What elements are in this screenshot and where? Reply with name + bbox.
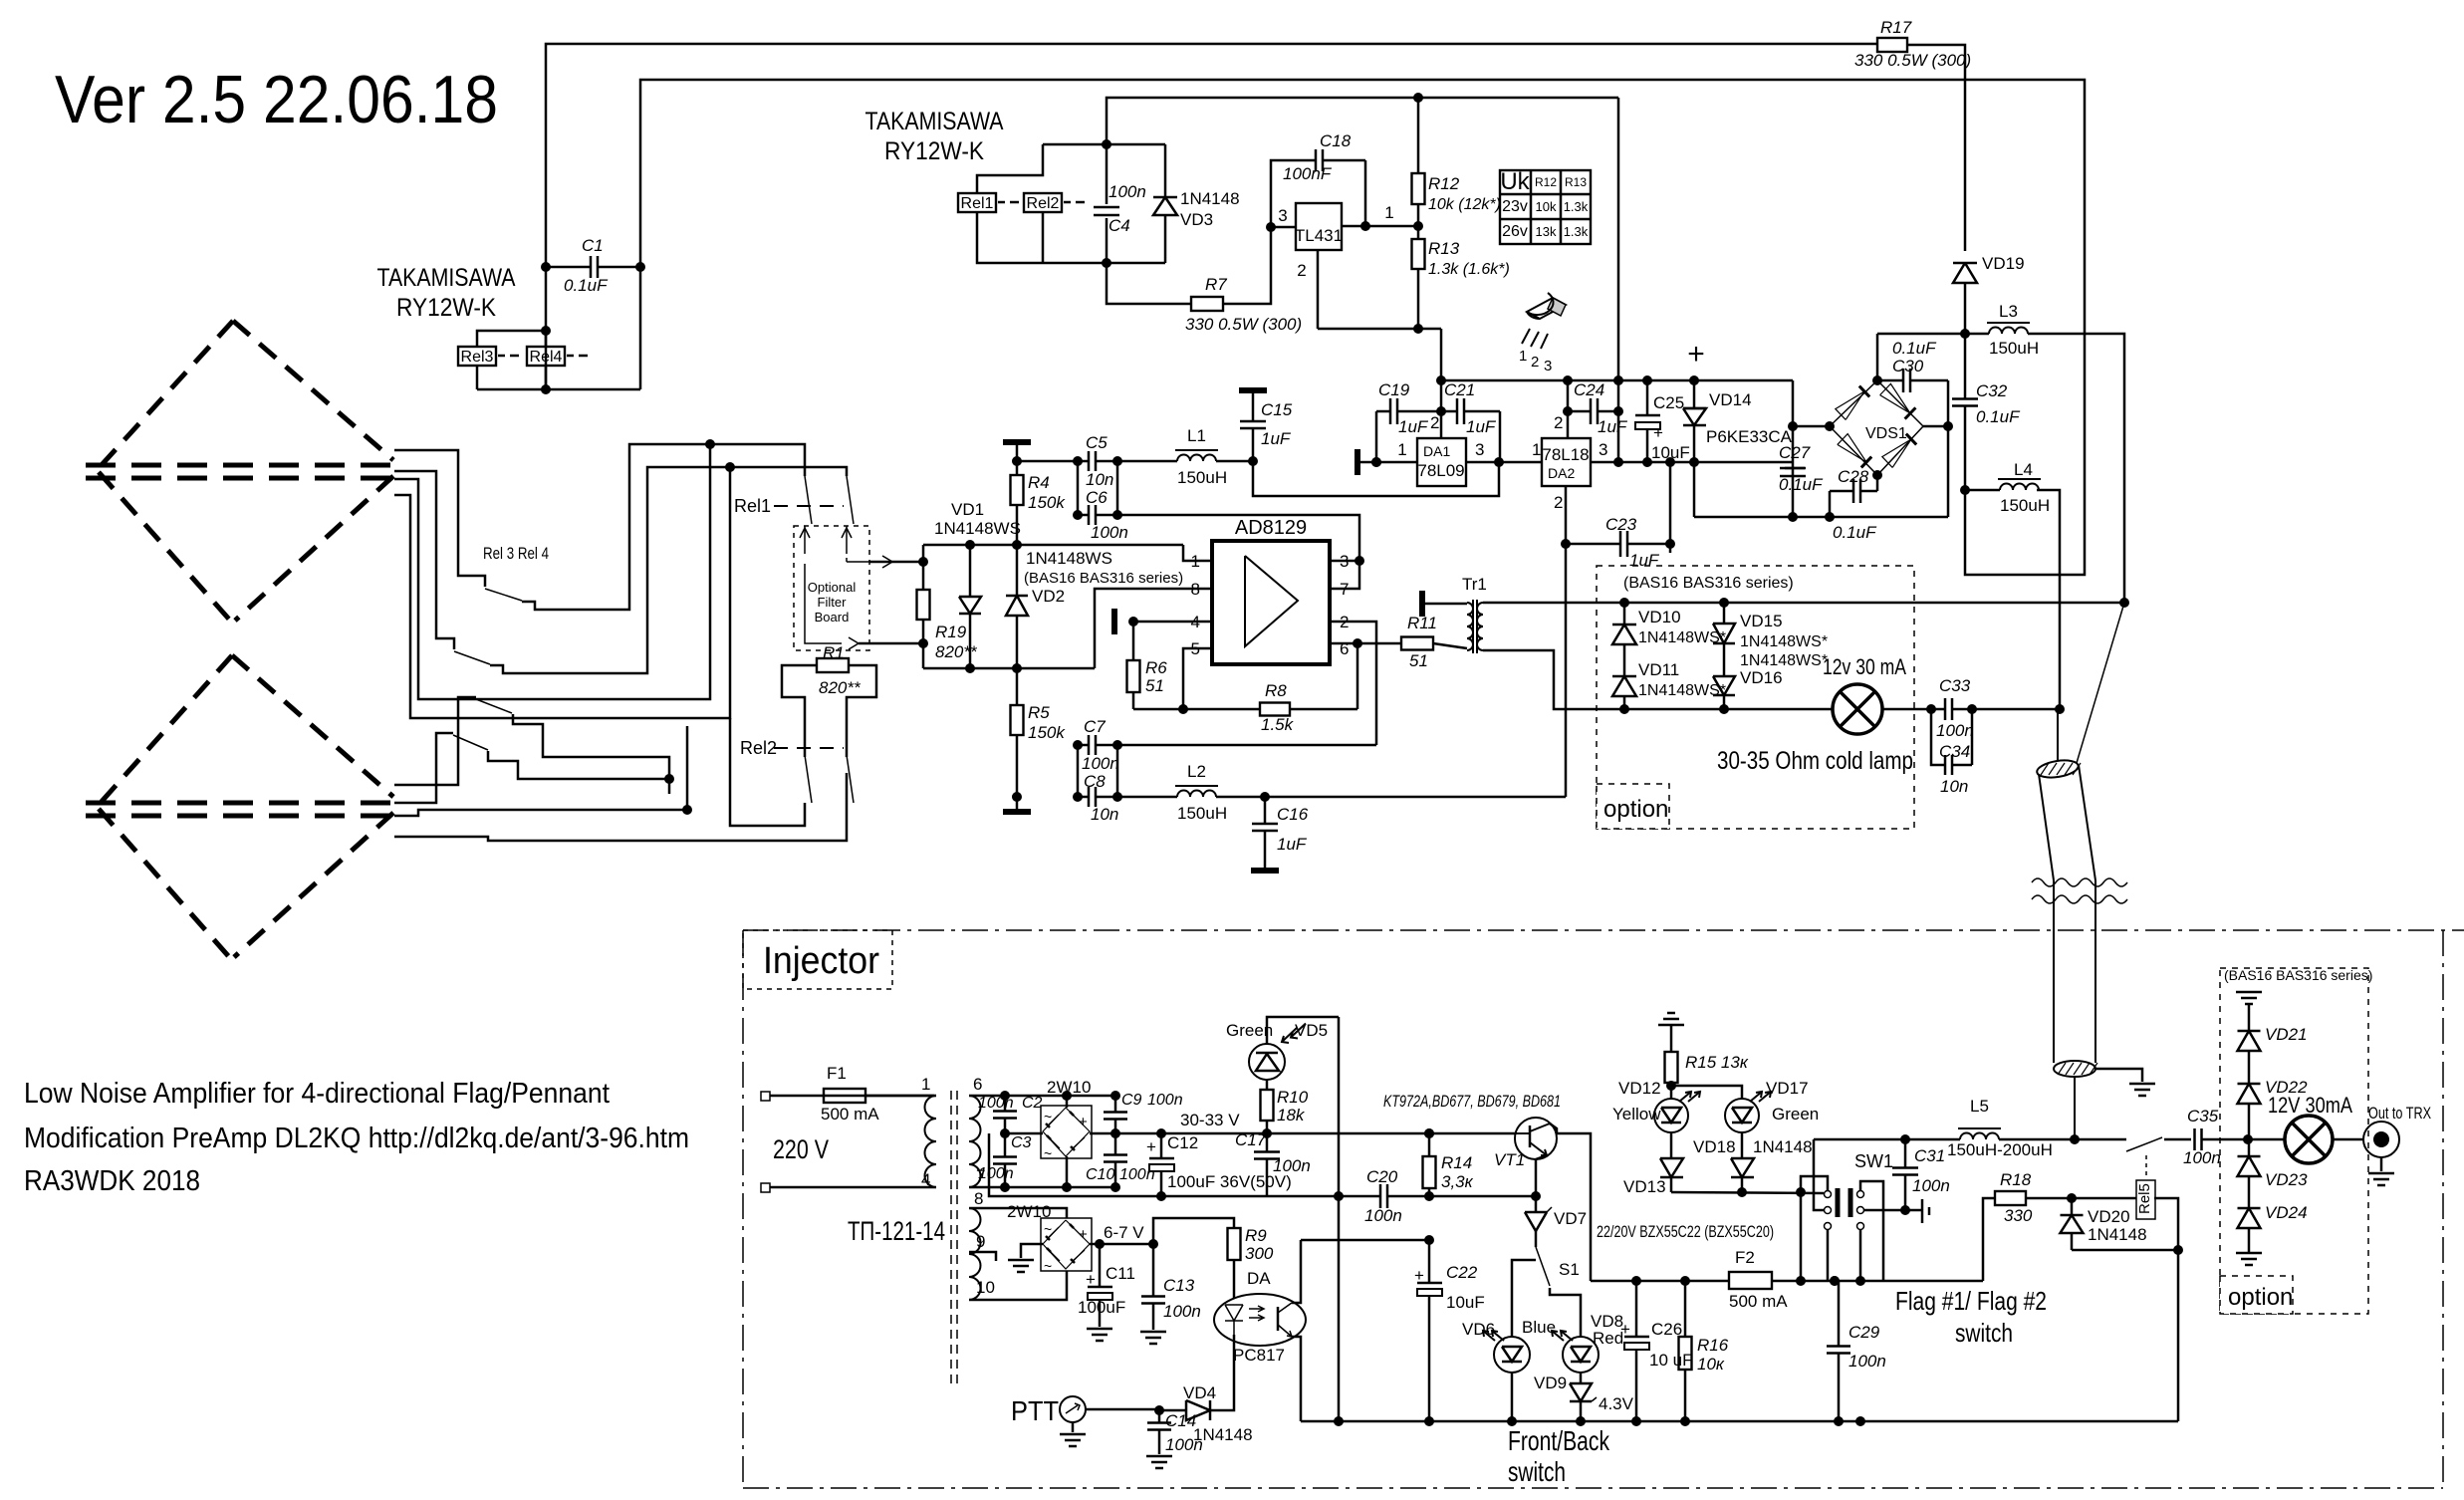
- svg-text:C33: C33: [1939, 676, 1971, 695]
- svg-text:10 uF: 10 uF: [1649, 1351, 1692, 1370]
- wire antenna upper feed 4: [394, 467, 730, 718]
- diode VD21: [2248, 1004, 2251, 1031]
- wire VD5 top: [1267, 1017, 1339, 1044]
- svg-text:0.1uF: 0.1uF: [1779, 475, 1824, 494]
- svg-text:C15: C15: [1261, 400, 1293, 419]
- svg-text:VT1: VT1: [1494, 1150, 1525, 1169]
- wire C6 rail to pin3: [1117, 515, 1359, 561]
- svg-text:+: +: [1653, 423, 1663, 442]
- arrow filter in 1: [804, 526, 806, 554]
- svg-text:6: 6: [973, 1075, 982, 1094]
- svg-text:Tr1: Tr1: [1462, 575, 1487, 594]
- capacitor C7: [1078, 744, 1089, 747]
- svg-text:1: 1: [1191, 552, 1200, 571]
- svg-text:2: 2: [1297, 261, 1306, 280]
- svg-text:100n: 100n: [1936, 721, 1974, 740]
- svg-text:VD2: VD2: [1032, 587, 1065, 606]
- capacitor C16: [1264, 797, 1267, 824]
- resistor R12: [1417, 98, 1420, 173]
- wire PC817 LED cathode: [1210, 1335, 1234, 1410]
- svg-text:12V 30mA: 12V 30mA: [2268, 1093, 2352, 1118]
- svg-text:1N4148WS*: 1N4148WS*: [1740, 633, 1828, 650]
- svg-text:1N4148WS*: 1N4148WS*: [1638, 629, 1726, 646]
- svg-text:C27: C27: [1779, 443, 1811, 462]
- wire bridge left: [1793, 425, 1830, 428]
- wire Tr1 left top: [1422, 603, 1467, 606]
- wire bridge1 bottom: [1066, 1156, 1069, 1187]
- ground bottom option2: [2236, 1252, 2262, 1255]
- capacitor C18: [1271, 160, 1316, 227]
- svg-text:VD1: VD1: [951, 500, 984, 519]
- wire F2 right: [1772, 1280, 1983, 1283]
- svg-text:100n: 100n: [1091, 523, 1128, 542]
- diode VD10: [1623, 603, 1626, 625]
- wire TL431 pin3: [1271, 226, 1296, 229]
- svg-text:C21: C21: [1444, 380, 1475, 399]
- wire sec B mid tap: [969, 1252, 996, 1261]
- svg-text:Out to TRX: Out to TRX: [2368, 1104, 2431, 1123]
- diode VD1: [969, 545, 972, 597]
- wire pin3 top: [1330, 560, 1359, 563]
- wire switch to C35: [2164, 1138, 2191, 1141]
- svg-text:L4: L4: [2014, 460, 2033, 479]
- svg-text:VDS1: VDS1: [1865, 425, 1907, 442]
- capacitor C14: [1158, 1410, 1161, 1423]
- svg-text:300: 300: [1245, 1244, 1274, 1263]
- wire DA2 pin2 bottom: [1565, 486, 1568, 797]
- capacitor C29: [1838, 1281, 1841, 1346]
- wire 9V rail to DA1: [1253, 461, 1499, 496]
- resistor R11: [1401, 637, 1433, 650]
- wire Rel1 Rel2 top loop: [977, 144, 1043, 193]
- svg-text:23v: 23v: [1502, 198, 1528, 215]
- diode VD24: [2238, 1207, 2261, 1210]
- svg-text:VD10: VD10: [1638, 608, 1681, 626]
- svg-text:switch: switch: [1508, 1456, 1566, 1487]
- svg-text:R12: R12: [1535, 175, 1557, 189]
- wire bridge1 out right: [1090, 1132, 1115, 1135]
- svg-text:220 V: 220 V: [773, 1134, 829, 1164]
- optional filter board box: [794, 526, 869, 650]
- relay Rel2: [1024, 193, 1062, 212]
- svg-text:RY12W-K: RY12W-K: [884, 137, 984, 165]
- svg-text:C35: C35: [2187, 1107, 2219, 1125]
- wire R8 to pin6 node: [1356, 643, 1359, 709]
- svg-text:RY12W-K: RY12W-K: [396, 294, 496, 322]
- wire bridge2 out: [1090, 1243, 1153, 1246]
- wire antenna lower feed 3: [394, 726, 687, 816]
- svg-text:100n: 100n: [1165, 1435, 1203, 1454]
- resistor R18: [1983, 1198, 1995, 1281]
- svg-text:L3: L3: [1999, 302, 2018, 321]
- capacitor C6: [1078, 514, 1089, 517]
- svg-text:ТП-121-14: ТП-121-14: [848, 1216, 945, 1246]
- svg-text:R9: R9: [1245, 1226, 1267, 1245]
- svg-text:option: option: [1603, 796, 1668, 823]
- capacitor C35: [2193, 1128, 2196, 1150]
- wire to R9: [1153, 1218, 1234, 1244]
- ground connector: [2380, 1157, 2383, 1171]
- capacitor C21: [1441, 410, 1457, 413]
- svg-text:C8: C8: [1084, 772, 1106, 791]
- svg-text:3: 3: [1278, 206, 1287, 225]
- svg-text:(BAS16 BAS316 series): (BAS16 BAS316 series): [1024, 570, 1183, 587]
- svg-text:C13: C13: [1163, 1276, 1195, 1295]
- svg-text:R17: R17: [1880, 18, 1912, 37]
- svg-text:8: 8: [974, 1189, 983, 1208]
- svg-text:78L09: 78L09: [1417, 461, 1464, 480]
- wire Tr1 right bottom: [1483, 650, 1624, 709]
- wire C5 C6 verticals: [1077, 461, 1080, 515]
- wire pin1: [1183, 545, 1212, 561]
- svg-text:3: 3: [1475, 440, 1484, 459]
- wire pin8: [1095, 589, 1212, 668]
- LED VD8 red: [1563, 1337, 1599, 1373]
- svg-text:C16: C16: [1277, 805, 1309, 824]
- diode VD15: [1723, 603, 1726, 624]
- svg-text:30-33 V: 30-33 V: [1180, 1111, 1240, 1129]
- svg-text:Rel1: Rel1: [734, 496, 771, 516]
- svg-text:DA2: DA2: [1548, 465, 1575, 481]
- wire lamp to connector: [2333, 1138, 2363, 1141]
- capacitor C4: [1106, 144, 1109, 204]
- capacitor C33: [1931, 708, 1945, 711]
- svg-text:R18: R18: [2000, 1170, 2032, 1189]
- arrow filter out bottom: [805, 564, 842, 643]
- svg-text:+: +: [1079, 1226, 1088, 1243]
- svg-text:R13: R13: [1565, 175, 1587, 189]
- wire L5 rail left: [1814, 1138, 1960, 1141]
- svg-text:F1: F1: [827, 1064, 847, 1083]
- svg-text:100n: 100n: [978, 1165, 1014, 1182]
- svg-text:VD13: VD13: [1623, 1177, 1666, 1196]
- capacitor C27: [1785, 467, 1805, 470]
- svg-text:C28: C28: [1838, 467, 1869, 486]
- wire 30V rail: [1115, 1132, 1516, 1135]
- wire sec A bottom: [969, 1186, 1115, 1189]
- switch Rel4 contact a: [476, 699, 512, 713]
- wire R15 to VD17: [1671, 1086, 1742, 1100]
- capacitor C1: [546, 266, 591, 269]
- diode VD9 zener: [1570, 1383, 1592, 1401]
- wire VT1 emitter: [1536, 1155, 1547, 1212]
- svg-text:R5: R5: [1028, 703, 1050, 722]
- svg-text:C9: C9: [1121, 1092, 1142, 1109]
- option box dashed: [1597, 566, 1914, 829]
- svg-text:R19: R19: [935, 623, 967, 641]
- resistor R4: [1016, 442, 1019, 475]
- ground bar R5 bottom: [1016, 797, 1019, 810]
- svg-text:TAKAMISAWA: TAKAMISAWA: [377, 264, 516, 292]
- svg-text:100n: 100n: [978, 1095, 1014, 1112]
- wire cable diag: [2077, 603, 2124, 763]
- svg-text:100n: 100n: [1912, 1176, 1950, 1195]
- wire pin5: [1183, 648, 1212, 709]
- svg-text:2: 2: [1430, 413, 1439, 432]
- capacitor C9: [1114, 1096, 1117, 1112]
- svg-text:0.1uF: 0.1uF: [1833, 523, 1877, 542]
- inductor L1: [1177, 455, 1216, 461]
- svg-text:1N4148WS: 1N4148WS: [934, 519, 1021, 538]
- resistor R16: [1684, 1281, 1687, 1337]
- regulator DA1 78L09: [1417, 438, 1466, 486]
- svg-text:C4: C4: [1109, 216, 1130, 235]
- svg-text:10k (12k*): 10k (12k*): [1428, 196, 1501, 213]
- svg-text:1: 1: [1397, 440, 1406, 459]
- wire bridge2 gnd: [1021, 1244, 1043, 1258]
- svg-text:C11: C11: [1106, 1264, 1135, 1283]
- svg-text:1N4148WS*: 1N4148WS*: [1638, 682, 1726, 699]
- wire DA1 pin3: [1466, 461, 1542, 464]
- svg-text:Rel4: Rel4: [530, 349, 563, 366]
- wire R13 plus rail: [1441, 379, 1793, 382]
- wire upper box: [1107, 98, 1618, 144]
- svg-text:100uF: 100uF: [1078, 1298, 1125, 1317]
- wire long vertical from top box: [1617, 98, 1620, 462]
- svg-text:1N4148WS: 1N4148WS: [1026, 549, 1112, 568]
- svg-text:C30: C30: [1892, 357, 1924, 375]
- switch Rel3 contact b: [454, 651, 490, 664]
- wire antenna upper feed 2: [394, 471, 454, 649]
- svg-text:100n: 100n: [1109, 182, 1146, 201]
- svg-text:Low Noise Amplifier for 4-dire: Low Noise Amplifier for 4-directional Fl…: [24, 1078, 610, 1110]
- capacitor C31: [1904, 1139, 1907, 1167]
- svg-text:78L18: 78L18: [1542, 445, 1589, 464]
- svg-text:1uF: 1uF: [1277, 835, 1308, 854]
- capacitor C23: [1566, 543, 1620, 546]
- lamp out 12V 30mA: [2285, 1116, 2333, 1163]
- capacitor C5: [1078, 460, 1089, 463]
- wire R6 to R8: [1133, 708, 1183, 711]
- svg-text:C29: C29: [1848, 1323, 1880, 1342]
- wire DA2 pin2 top: [1567, 380, 1570, 438]
- wire C21 right leg: [1499, 411, 1502, 462]
- lamp 12v 30mA: [1833, 684, 1882, 734]
- wire SW1 left bottom: [1827, 1229, 1830, 1281]
- svg-text:2: 2: [1531, 354, 1539, 371]
- svg-text:VD5: VD5: [1295, 1021, 1328, 1040]
- svg-text:VD18: VD18: [1693, 1137, 1736, 1156]
- wire SW1 hook right: [1860, 1181, 1883, 1281]
- diode VD23: [2248, 1139, 2251, 1156]
- svg-text:+: +: [1687, 338, 1705, 371]
- svg-text:R8: R8: [1265, 681, 1287, 700]
- svg-text:VD3: VD3: [1180, 210, 1213, 229]
- wire S1 contacts: [1512, 1260, 1536, 1338]
- wire SW1 hook left: [1801, 1176, 1828, 1281]
- svg-text:+: +: [1079, 1114, 1088, 1130]
- wire DA2 pin3 row: [1591, 461, 1793, 464]
- svg-text:VD15: VD15: [1740, 612, 1783, 630]
- antenna feedline lower: [86, 801, 393, 806]
- wire C19 left leg: [1375, 411, 1378, 462]
- label Injector: [743, 930, 892, 989]
- svg-text:C31: C31: [1914, 1146, 1945, 1165]
- svg-text:L5: L5: [1970, 1097, 1989, 1116]
- injector dash-dot box: [743, 929, 2464, 931]
- wire R1 loop right: [847, 681, 876, 757]
- svg-text:1: 1: [1532, 440, 1541, 459]
- svg-text:C17: C17: [1235, 1130, 1267, 1149]
- wire rail to L2: [1117, 796, 1177, 799]
- svg-text:4.3V: 4.3V: [1599, 1394, 1634, 1413]
- wire cable shield ground: [2095, 1069, 2142, 1082]
- wire C33 to cable center: [1972, 708, 2060, 711]
- wire antenna lower feed 1: [394, 697, 476, 785]
- svg-text:Board: Board: [815, 610, 850, 625]
- svg-text:C25: C25: [1653, 393, 1684, 412]
- capacitor C13: [1152, 1244, 1155, 1296]
- svg-text:C24: C24: [1574, 380, 1604, 399]
- relay Rel1: [958, 193, 996, 212]
- relay Rel3: [458, 347, 496, 366]
- resistor R7: [1191, 297, 1223, 311]
- wire pin2: [1330, 622, 1376, 745]
- svg-text:R10: R10: [1277, 1088, 1309, 1107]
- svg-text:VD24: VD24: [2265, 1203, 2308, 1222]
- svg-text:22/20V BZX55C22 (BZX55C20): 22/20V BZX55C22 (BZX55C20): [1597, 1222, 1774, 1241]
- transistor TO-92 package drawing: [1527, 298, 1566, 319]
- ground bar Tr1: [1419, 591, 1425, 617]
- svg-text:12v 30 mA: 12v 30 mA: [1823, 654, 1906, 679]
- wire gnd rail injector: [989, 1133, 1339, 1196]
- svg-text:VD6: VD6: [1462, 1320, 1495, 1339]
- svg-text:100n: 100n: [1364, 1206, 1402, 1225]
- wire bridge top to L3: [1876, 334, 1879, 380]
- svg-text:3: 3: [1544, 358, 1552, 375]
- svg-text:+: +: [1414, 1266, 1424, 1285]
- svg-text:150uH-200uH: 150uH-200uH: [1947, 1140, 2053, 1159]
- fuse F1: [770, 1095, 865, 1098]
- wire input top rail: [923, 544, 1183, 547]
- coax cable upper: [2036, 758, 2080, 780]
- svg-text:Ver 2.5 22.06.18: Ver 2.5 22.06.18: [55, 62, 498, 137]
- wire VD20 bottom: [2072, 1249, 2178, 1252]
- wire PC817 emitter: [1292, 1337, 1301, 1421]
- svg-text:VD7: VD7: [1554, 1209, 1587, 1228]
- wire bridge1 AC left: [1005, 1132, 1043, 1135]
- svg-text:1N4148: 1N4148: [1753, 1137, 1813, 1156]
- capacitor C15: [1252, 428, 1255, 461]
- antenna loop 1 (upper diamond): [99, 321, 233, 468]
- diode VD16: [1713, 676, 1735, 695]
- svg-text:+: +: [1086, 1270, 1096, 1289]
- wire filter to R19: [869, 561, 923, 564]
- svg-text:150uH: 150uH: [2000, 496, 2050, 515]
- diode VD3: [1164, 144, 1167, 197]
- diode VD18: [1731, 1158, 1754, 1177]
- wire C23 right leg: [1669, 462, 1672, 544]
- wire L4 to cable: [2037, 490, 2060, 709]
- svg-text:150k: 150k: [1028, 493, 1066, 512]
- svg-text:C23: C23: [1605, 515, 1637, 534]
- transformer T1 core: [950, 1091, 952, 1389]
- wire antenna lower feed 4: [394, 773, 847, 841]
- svg-text:Rel2: Rel2: [740, 738, 777, 758]
- svg-text:Green: Green: [1772, 1105, 1819, 1124]
- wire VT1 collector: [1550, 1124, 1591, 1281]
- capacitor C3: [1004, 1133, 1007, 1156]
- wire Rel1 Rel2 bottom: [977, 212, 1165, 263]
- ground top option2: [2236, 991, 2262, 994]
- svg-text:VD20: VD20: [2088, 1207, 2130, 1226]
- wire L3 node: [1877, 333, 1965, 336]
- svg-text:Rel3: Rel3: [461, 349, 494, 366]
- wire SW1 right mid to ground: [1863, 1209, 1905, 1212]
- capacitor C11 electrolytic: [1099, 1244, 1102, 1287]
- svg-text:0.1uF: 0.1uF: [1892, 339, 1937, 358]
- svg-text:C7: C7: [1084, 717, 1106, 736]
- ground bar R4 top: [1003, 439, 1031, 445]
- svg-text:Rel1: Rel1: [961, 195, 994, 212]
- svg-text:~: ~: [1044, 1258, 1052, 1274]
- resistor R15: [1670, 1025, 1673, 1052]
- svg-text:Flag #1/ Flag #2: Flag #1/ Flag #2: [1895, 1286, 2047, 1316]
- svg-text:100n: 100n: [1082, 754, 1119, 773]
- svg-text:VD9: VD9: [1534, 1374, 1567, 1392]
- svg-text:VD21: VD21: [2265, 1025, 2308, 1044]
- wire pin6: [1330, 642, 1401, 645]
- inductor L3: [1965, 333, 1989, 336]
- relay Rel5: [2145, 1155, 2147, 1179]
- inductor L5: [1960, 1133, 1999, 1140]
- wire L1 to C15 node: [1216, 460, 1253, 463]
- LED VD6 blue: [1494, 1337, 1530, 1373]
- wire bottom rail power: [1694, 516, 1948, 519]
- capacitor C8: [1078, 796, 1089, 799]
- svg-text:1uF: 1uF: [1629, 551, 1660, 570]
- svg-text:R14: R14: [1441, 1153, 1472, 1172]
- svg-text:PTT: PTT: [1011, 1395, 1059, 1426]
- wire L2 rail right: [1265, 796, 1566, 799]
- svg-text:2W10: 2W10: [1047, 1078, 1091, 1097]
- capacitor C32: [1964, 334, 1967, 398]
- op-amp U TL431: [1296, 203, 1342, 250]
- svg-text:10n: 10n: [1091, 805, 1118, 824]
- wire top rail 2: [640, 80, 2085, 575]
- wire input bottom rail: [923, 667, 1095, 670]
- svg-text:VD17: VD17: [1766, 1079, 1809, 1098]
- svg-text:10к: 10к: [1697, 1355, 1725, 1374]
- svg-text:500 mA: 500 mA: [1729, 1292, 1788, 1311]
- capacitor C12 electrolytic: [1160, 1133, 1163, 1158]
- wire VD5 gnd vertical: [1338, 1017, 1341, 1421]
- table Uk R12 R13: [1500, 170, 1591, 244]
- terminal mains 1: [761, 1092, 770, 1101]
- svg-text:Modification PreAmp DL2KQ htt: Modification PreAmp DL2KQ http://dl2kq.d…: [24, 1123, 689, 1154]
- wire option bottom rail: [1624, 708, 1834, 711]
- svg-text:C18: C18: [1320, 131, 1352, 150]
- capacitor C24: [1568, 410, 1591, 413]
- diode VD22: [2238, 1083, 2261, 1086]
- resistor R6: [1132, 622, 1135, 660]
- svg-text:30-35 Ohm cold lamp: 30-35 Ohm cold lamp: [1717, 747, 1913, 775]
- switch Rel4 contact b: [453, 735, 488, 750]
- svg-text:13k: 13k: [1536, 224, 1557, 239]
- svg-text:L1: L1: [1187, 426, 1206, 445]
- svg-text:C12: C12: [1167, 1133, 1198, 1152]
- svg-text:R12: R12: [1428, 174, 1460, 193]
- capacitor C19: [1376, 410, 1390, 413]
- svg-text:SW1: SW1: [1854, 1151, 1893, 1171]
- svg-text:+: +: [1146, 1137, 1156, 1156]
- svg-text:switch: switch: [1955, 1318, 2013, 1348]
- svg-text:R15 13к: R15 13к: [1685, 1053, 1749, 1072]
- switch Rel2 contacts: [774, 747, 844, 749]
- svg-text:100nF: 100nF: [1283, 164, 1333, 183]
- svg-text:Optional: Optional: [808, 580, 857, 595]
- switch Rel5 contact: [2126, 1137, 2162, 1151]
